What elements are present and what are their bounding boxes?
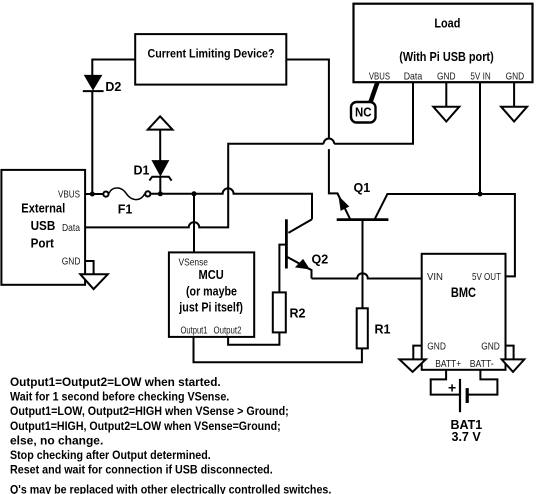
wire: BATT+ to battery	[431, 370, 459, 395]
svg-text:5V IN: 5V IN	[470, 70, 490, 82]
svg-text:Data: Data	[62, 222, 80, 234]
box: MCU	[169, 252, 254, 337]
svg-text:GND: GND	[427, 341, 446, 353]
fuse F1 right terminal circle	[145, 191, 150, 196]
junction dot at D1 branch	[158, 191, 163, 196]
Q2 emitter diagonal	[286, 257, 311, 279]
svg-text:GND: GND	[481, 341, 500, 353]
wire: Output1 to R1 bottom	[194, 337, 362, 362]
Q2 emitter arrowhead	[297, 260, 309, 268]
junction dot at VSense branch	[192, 191, 197, 196]
box: BMC	[422, 254, 506, 370]
svg-text:External: External	[21, 200, 65, 215]
svg-text:GND: GND	[506, 70, 525, 82]
svg-text:(or maybe: (or maybe	[186, 284, 237, 298]
resistor R2	[273, 292, 286, 332]
diode D1 (zener, cathode down)	[152, 161, 168, 176]
svg-text:Load: Load	[434, 15, 460, 30]
svg-text:BMC: BMC	[451, 285, 476, 300]
svg-text:D1: D1	[134, 164, 150, 178]
wire: USB GND pin	[85, 261, 94, 274]
junction dot at D2 branch	[90, 192, 95, 197]
svg-text:VBUS: VBUS	[369, 70, 390, 82]
resistor R1	[357, 308, 368, 348]
svg-text:USB: USB	[31, 218, 56, 233]
Q2 collector diagonal from VBUS corner	[288, 219, 312, 233]
svg-text:Reset and wait for connection: Reset and wait for connection if USB dis…	[10, 463, 273, 477]
diode D2 (cathode down)	[85, 75, 102, 89]
svg-text:VIN: VIN	[427, 271, 443, 283]
svg-text:BATT-: BATT-	[470, 358, 494, 370]
wire: D2 branch up and over to CLD left side	[92, 60, 135, 195]
svg-text:Stop checking after Output det: Stop checking after Output determined.	[10, 448, 211, 462]
transistor Q1 (PNP) base bar	[337, 218, 389, 221]
svg-text:5V OUT: 5V OUT	[472, 271, 501, 283]
box: External USB Port	[1, 170, 85, 285]
svg-text:R2: R2	[290, 307, 306, 321]
NC terminal box	[351, 102, 376, 123]
svg-text:NC: NC	[355, 106, 372, 120]
wire: Q1 base down to R1	[362, 220, 364, 309]
svg-text:Port: Port	[31, 236, 55, 251]
svg-text:3.7 V: 3.7 V	[452, 430, 482, 444]
box: Current Limiting Device?	[135, 34, 286, 85]
svg-text:+: +	[448, 380, 456, 396]
wire: D1 to VBUS line	[159, 177, 161, 194]
wire: CLD right side down to Q1 emitter, hop over Data	[286, 60, 350, 219]
wire: BMC left GND	[413, 346, 421, 360]
svg-text:else, no change.: else, no change.	[10, 433, 103, 447]
note text block	[10, 375, 331, 494]
junction dot 5V IN	[478, 192, 483, 197]
svg-text:Output1: Output1	[181, 324, 208, 336]
box: Load (With Pi USB port)	[354, 4, 533, 83]
svg-text:BATT+: BATT+	[435, 358, 461, 370]
svg-text:Current Limiting Device?: Current Limiting Device?	[148, 47, 275, 61]
wire: Q2 base to R2	[279, 245, 286, 293]
ground symbol under Load GND left	[445, 82, 447, 107]
fuse F1 left terminal circle	[103, 192, 108, 197]
battery BAT1 long plate	[459, 379, 461, 412]
Q1 emitter arrowhead	[339, 198, 348, 211]
svg-text:Q2: Q2	[312, 253, 329, 267]
svg-text:Data: Data	[404, 70, 423, 82]
wire: BMC right GND	[506, 346, 514, 360]
off-page arrow above D1	[148, 116, 173, 129]
ground symbol BMC right	[502, 359, 525, 372]
wire: arrow to D1	[159, 130, 161, 161]
svg-text:Q1: Q1	[354, 181, 371, 195]
wire: VBUS stub to NC (thick diagonal)	[371, 82, 378, 102]
wire: VBUS net F1 to Q2 collector corner, hop over x=228	[151, 188, 312, 219]
ground symbol under Load GND right	[513, 82, 515, 107]
svg-text:Output1=HIGH, Output2=LOW when: Output1=HIGH, Output2=LOW when VSense=Gr…	[10, 419, 281, 433]
transistor Q2 (NPN) base bar	[285, 219, 288, 268]
svg-text:Output1=Output2=LOW when start: Output1=Output2=LOW when started.	[10, 375, 221, 389]
wire: Output2 to R2 bottom	[228, 332, 279, 344]
svg-text:F1: F1	[118, 203, 133, 217]
battery BAT1 short plate	[466, 388, 469, 403]
wire: 5V IN stub	[479, 82, 481, 194]
svg-text:(With Pi USB port): (With Pi USB port)	[399, 49, 493, 64]
svg-text:MCU: MCU	[199, 267, 224, 282]
svg-text:Wait for 1 second before check: Wait for 1 second before checking VSense…	[10, 390, 229, 404]
Q1 collector diagonal and wire to 5V OUT	[375, 194, 515, 276]
svg-text:Q's may be replaced with other: Q's may be replaced with other electrica…	[10, 482, 331, 494]
ground symbol BMC left	[399, 359, 425, 372]
wire: VBUS net from USB port to F1	[85, 193, 103, 195]
fuse F1 wavy element	[109, 188, 145, 200]
svg-text:D2: D2	[105, 80, 121, 94]
ground symbol USB	[80, 274, 108, 289]
wire: VSense line MCU to VBUS	[193, 194, 195, 253]
wire: BATT- to battery	[468, 370, 497, 395]
wire: VIN line from Q2 emitter to BMC, hop over x=362.5	[312, 273, 422, 278]
wire: Data net USB to Load, hops over x=194 and x=328.9	[85, 82, 413, 227]
svg-text:Output1=LOW, Output2=HIGH when: Output1=LOW, Output2=HIGH when VSense > …	[10, 404, 289, 418]
svg-text:GND: GND	[62, 255, 81, 267]
svg-text:just Pi itself): just Pi itself)	[178, 301, 243, 315]
svg-text:GND: GND	[437, 70, 456, 82]
svg-text:R1: R1	[375, 323, 391, 337]
svg-text:VBUS: VBUS	[58, 189, 80, 201]
svg-text:Output2: Output2	[214, 324, 242, 336]
